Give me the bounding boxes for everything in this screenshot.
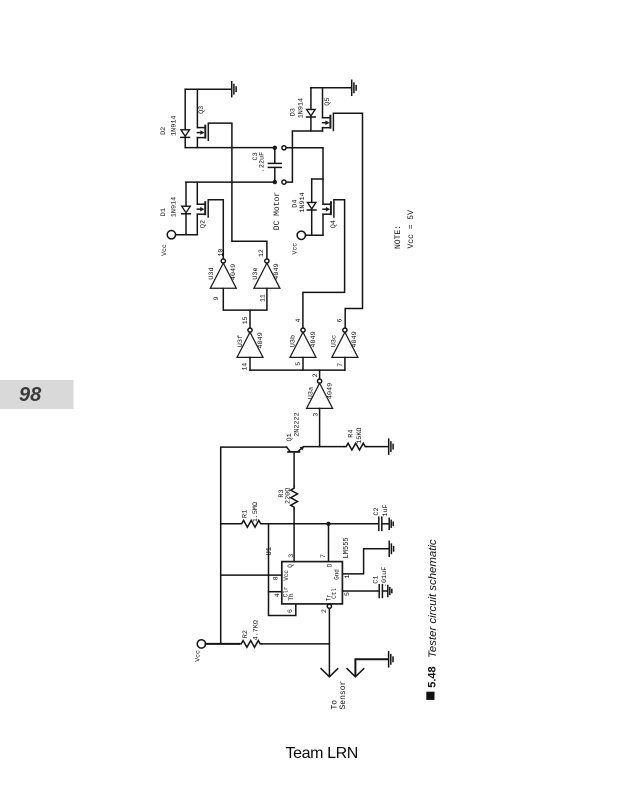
wire Q3 gate lead [208, 123, 267, 259]
svg-text:1.5MΩ: 1.5MΩ [252, 502, 260, 522]
svg-text:Vcc: Vcc [161, 244, 168, 256]
svg-text:C1: C1 [373, 576, 381, 584]
svg-text:7: 7 [320, 554, 327, 558]
wire Vcc pin 8 lead [221, 574, 282, 576]
svg-text:9: 9 [213, 297, 220, 301]
terminal Vcc (Q2 cell) [167, 231, 175, 239]
wire D4 bottom lead [311, 210, 313, 235]
svg-text:Q3: Q3 [198, 106, 206, 114]
inverter U3a [307, 379, 333, 408]
node junction C3 bottom [273, 180, 277, 184]
terminal Vcc (R2) [197, 640, 205, 648]
wire pin 7 lead [328, 524, 330, 562]
transistor Q4 [323, 200, 334, 218]
wire U3d U3e inputs bus [223, 288, 267, 310]
svg-text:Th: Th [288, 593, 295, 601]
wire U3f output lead [249, 310, 251, 328]
svg-text:LM555: LM555 [343, 537, 351, 558]
svg-text:Vcc: Vcc [291, 243, 298, 255]
wire D3 bottom lead [310, 117, 312, 131]
svg-text:U3d: U3d [208, 267, 216, 279]
ground (R4) [389, 439, 393, 454]
wire R3 to 555 pin 3 [293, 509, 295, 562]
svg-text:.01uF: .01uF [381, 567, 389, 587]
svg-text:6: 6 [336, 319, 343, 323]
wire D1 top lead [185, 182, 187, 206]
svg-text:Vcc: Vcc [283, 570, 290, 581]
transistor Q1 [287, 446, 305, 486]
svg-text:4049: 4049 [257, 332, 265, 348]
svg-text:R2: R2 [242, 630, 250, 638]
terminal DC motor top [282, 146, 286, 150]
svg-text:U1: U1 [266, 547, 274, 555]
node junction pin 7 [326, 522, 330, 526]
svg-text:C2: C2 [373, 507, 381, 515]
diode D1 [182, 206, 191, 214]
wire D2 top lead [184, 89, 186, 130]
inverter U3d [210, 259, 236, 288]
svg-text:Sensor: Sensor [339, 680, 348, 709]
inverter U3e [254, 259, 280, 288]
svg-text:2: 2 [321, 609, 328, 613]
arrow to sensor (return) [347, 669, 364, 677]
wire R2 to trigger line [262, 643, 330, 645]
wire D2 bottom lead [184, 137, 186, 147]
ground (555 pin 1) [389, 541, 393, 556]
wire Q5 source lead [322, 128, 324, 131]
svg-text:U3a: U3a [308, 387, 316, 399]
svg-text:10: 10 [217, 249, 224, 257]
svg-text:1N914: 1N914 [170, 115, 178, 135]
wire pin 5 lead [342, 590, 378, 592]
wire Th branch down [269, 524, 296, 616]
wire Vcc to Q2 source [176, 234, 198, 236]
svg-text:4049: 4049 [230, 264, 238, 280]
pin 2 inversion bubble [327, 604, 331, 608]
wire Vcc to Q4 source [306, 234, 324, 236]
transistor Q2 [197, 200, 208, 218]
svg-text:R1: R1 [242, 510, 250, 518]
svg-text:Team LRN: Team LRN [286, 745, 358, 762]
wire motor top to Q4 drain [286, 148, 323, 179]
wire U3a output lead [319, 370, 321, 379]
svg-text:98: 98 [19, 384, 42, 406]
inverter U3b [290, 328, 316, 357]
wire rail D4 [312, 178, 323, 180]
wire trigger line down to sensor arrow [328, 608, 330, 676]
svg-text:D: D [326, 563, 333, 567]
figure caption 5.48 [426, 539, 439, 700]
transistor Q3 [197, 123, 208, 141]
svg-text:220Ω: 220Ω [284, 488, 292, 504]
wire D4 top lead [311, 179, 313, 202]
svg-text:1N914: 1N914 [297, 98, 305, 118]
svg-text:3: 3 [288, 554, 295, 558]
wire pin 1 to ground [342, 549, 389, 574]
svg-text:4049: 4049 [351, 331, 359, 347]
wire Q3 source lead [196, 138, 198, 148]
svg-text:.22uF: .22uF [258, 152, 266, 172]
wire Q4 gate lead [303, 200, 345, 328]
terminal DC motor bottom [282, 180, 286, 184]
transistor Q5 [323, 113, 334, 131]
capacitor C1 [379, 585, 387, 598]
svg-text:DC Motor: DC Motor [273, 192, 282, 231]
ground (C2) [389, 518, 393, 529]
ground (C1) [388, 586, 392, 597]
wire Q2 gate lead [208, 200, 223, 259]
svg-text:U3f: U3f [237, 335, 245, 347]
svg-text:11: 11 [260, 294, 267, 302]
wire Q5 gate lead [333, 113, 362, 328]
svg-text:Q: Q [287, 564, 294, 568]
wire buffer input bus [250, 357, 345, 370]
wire Q2 source lead [196, 214, 198, 235]
wire Vcc to R2 [206, 643, 239, 645]
note text [394, 210, 416, 249]
svg-text:Gnd: Gnd [334, 569, 341, 580]
svg-text:D3: D3 [289, 108, 297, 116]
ground (top-left, Q3 cell) [185, 82, 236, 97]
svg-text:2: 2 [312, 373, 319, 377]
wire Q5 drain lead [322, 88, 324, 118]
wire rail Q2 cell to C3 [186, 181, 275, 183]
label To Sensor [331, 680, 348, 709]
wire motor bottom up and over to Q5 source rail [286, 131, 322, 182]
svg-text:1N914: 1N914 [170, 197, 178, 217]
svg-text:1N914: 1N914 [299, 192, 307, 212]
arrow to sensor (signal) [321, 669, 338, 677]
svg-text:Vcc: Vcc [194, 650, 201, 662]
page number box [0, 380, 74, 409]
resistor R1 [240, 520, 263, 527]
wire Q2 drain lead [196, 182, 198, 204]
resistor R3 [291, 486, 298, 509]
diode D3 [307, 109, 316, 117]
svg-text:12: 12 [258, 249, 265, 257]
node junction C3 top [273, 146, 277, 150]
resistor R4 [344, 443, 367, 450]
wire Q3 drain lead [196, 89, 198, 127]
svg-text:4049: 4049 [310, 331, 318, 347]
svg-text:4: 4 [274, 593, 281, 597]
svg-text:D1: D1 [160, 208, 168, 216]
wire U3a input lead [319, 408, 321, 446]
svg-text:5: 5 [295, 362, 302, 366]
resistor R2 [239, 641, 262, 648]
svg-text:2N2222: 2N2222 [294, 412, 302, 436]
svg-text:U3e: U3e [252, 267, 260, 279]
wire R1 to C2 [262, 523, 377, 525]
svg-text:U3b: U3b [289, 335, 297, 347]
wire Q1 emitter to node [303, 446, 344, 448]
svg-text:1: 1 [344, 575, 351, 579]
inverter U3f [237, 328, 263, 357]
diode D2 [181, 130, 190, 138]
svg-text:8: 8 [273, 576, 280, 580]
svg-text:4049: 4049 [273, 263, 281, 279]
capacitor C3 [268, 148, 281, 182]
ground (top-right, Q5 cell) [311, 80, 356, 95]
svg-text:U3c: U3c [331, 335, 339, 347]
wire Clr pin 4 lead [269, 591, 282, 593]
svg-text:14: 14 [242, 363, 249, 371]
svg-text:NOTE:: NOTE: [394, 225, 403, 249]
svg-text:Vcc = 5V: Vcc = 5V [407, 210, 416, 249]
svg-text:5.48: 5.48 [427, 666, 439, 687]
svg-text:4.7KΩ: 4.7KΩ [252, 620, 260, 640]
svg-text:D2: D2 [160, 127, 168, 135]
inverter U3c [332, 328, 358, 357]
svg-text:4: 4 [295, 319, 302, 323]
svg-text:5: 5 [344, 592, 351, 596]
svg-text:7: 7 [337, 363, 344, 367]
svg-text:1uF: 1uF [382, 504, 390, 516]
capacitor C2 [379, 517, 389, 530]
svg-text:R4: R4 [347, 430, 355, 438]
wire R4 to ground [367, 446, 389, 448]
wire Q4 source lead [322, 214, 324, 235]
wire Vcc trunk to Q1 collector [221, 447, 287, 644]
wire Q4 drain lead [322, 179, 324, 204]
diode D4 [307, 202, 316, 210]
ground (sensor return) [389, 652, 393, 667]
svg-text:Q2: Q2 [200, 220, 208, 228]
wire RC net horizontal [221, 523, 240, 525]
svg-text:3: 3 [312, 413, 319, 417]
svg-text:Q5: Q5 [324, 98, 332, 106]
terminal Vcc (Q4 cell) [297, 231, 305, 239]
svg-text:6: 6 [287, 609, 294, 613]
svg-text:4049: 4049 [327, 383, 335, 399]
wire sensor return to ground [355, 659, 388, 676]
svg-text:15: 15 [242, 316, 249, 324]
wire D1 bottom lead [185, 214, 187, 235]
wire rail Q3 cell to C3 [185, 147, 275, 149]
svg-text:Q4: Q4 [330, 220, 338, 228]
svg-text:15KΩ: 15KΩ [356, 427, 364, 443]
IC U1 LM555 box [282, 562, 343, 604]
svg-text:Tester circuit schematic: Tester circuit schematic [427, 539, 439, 658]
wire D3 top lead [310, 88, 312, 110]
svg-text:Ctl: Ctl [331, 588, 338, 599]
